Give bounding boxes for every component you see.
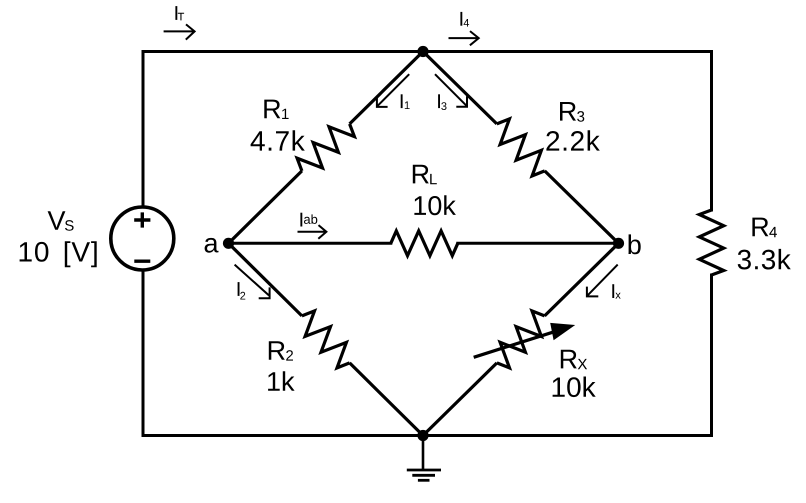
wire right rail lower [710,275,713,436]
label R2 [269,341,293,360]
label 1k [268,371,295,391]
label 10k (RL) [414,195,456,215]
label 2.2k [546,130,599,150]
current arrow I1 [377,74,410,109]
wire a-b right segment [458,242,619,245]
label a [205,238,219,253]
resistor R3 [423,52,619,244]
node top junction [417,46,428,57]
node a [223,238,234,249]
label 3.3k [738,249,791,270]
resistor RL [391,231,458,256]
label R4 [752,218,777,238]
resistor R2 [229,243,424,435]
label RL [413,165,437,184]
current arrow I4 [449,12,479,45]
current arrow I3 [435,74,467,110]
label RX [561,350,587,369]
label 4.7k [251,130,305,150]
label 10 [V] [20,241,97,267]
wire bottom rail [143,434,712,437]
current arrow Ix [587,265,621,299]
wire left rail lower [142,271,145,436]
label VS [48,211,74,231]
label R1 [264,100,288,119]
label R3 [560,102,584,122]
resistor RX variable [423,243,619,435]
current arrow Iab [298,213,327,239]
wire right rail upper [710,52,713,211]
resistor R1 [229,52,424,244]
resistor R4 [699,210,723,275]
wire left rail upper [142,52,145,207]
node bottom junction [417,430,428,441]
wire a-b left segment [229,242,391,245]
label b [629,234,641,254]
node b [613,238,624,249]
current arrow IT [164,6,195,40]
ground [407,436,441,481]
voltage source VS [111,207,174,270]
wire top rail [143,50,712,53]
RX wiper arrow [474,323,576,357]
current arrow I2 [235,265,270,300]
label 10k (RX) [553,377,596,398]
